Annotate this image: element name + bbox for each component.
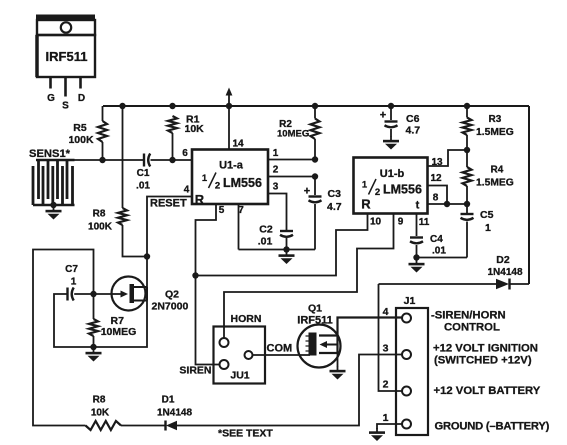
wire: Q1 drain to J1 pin 4 [338,318,403,336]
svg-text:S: S [62,101,69,112]
wire: J1 pin 1 to ground [377,424,402,429]
node: rail/R3 [464,103,470,109]
svg-text:Q2: Q2 [165,289,179,301]
node: gate/C7/R7 [90,291,96,297]
resistor R1 10K [168,113,204,159]
svg-text:100K: 100K [68,134,94,146]
node: rail/pin14 [226,103,232,109]
svg-text:10: 10 [370,217,382,228]
wire: Q2 source to ground rail [94,301,148,348]
package leg S [62,77,69,112]
svg-text:SIREN: SIREN [179,365,211,377]
svg-text:1.5MEG: 1.5MEG [476,178,514,189]
node: reset/R8/Q2 drain [144,253,150,259]
svg-text:4.7: 4.7 [327,201,342,213]
ground (C2/pin7 rail) [286,251,288,255]
node: C1/R1/pin6 [169,157,175,163]
svg-text:R3: R3 [489,114,502,125]
wire: ground rail under U1-a [239,249,316,251]
svg-text:+: + [304,186,310,198]
wire: R8 to D1 [121,425,166,427]
svg-text:RESET: RESET [150,197,187,209]
wire: C5 bottom to C4 node [417,257,468,259]
node: R7/ground [90,344,96,350]
svg-text:JU1: JU1 [230,370,249,382]
svg-text:10K: 10K [185,123,205,135]
svg-text:1: 1 [202,173,208,184]
node: pin2/C3 [312,173,318,179]
svg-text:.01: .01 [136,181,150,192]
wire: siren node to JU1 SIREN pin [196,276,220,365]
svg-text:1: 1 [383,412,389,424]
wire: pin 1 to R2/C3 net [268,159,315,161]
ground (SENS1) [53,207,55,211]
resistor R8 10K [86,395,122,431]
wire: rail right drop to D2 [528,106,530,284]
node: sensor to ground [50,202,56,208]
svg-text:.01: .01 [432,246,446,257]
wire: pin 10 to pin 5 net [196,214,368,276]
svg-text:1N4148: 1N4148 [157,407,192,418]
svg-text:LM556: LM556 [383,183,422,197]
svg-text:4.7: 4.7 [406,125,421,137]
label +12 VOLT IGNITION (SWITCHED +12V) [433,342,538,366]
node: pin8/pin12 [444,201,450,207]
svg-text:CONTROL: CONTROL [444,322,500,334]
svg-text:C3: C3 [328,188,342,200]
svg-text:R8: R8 [93,209,106,220]
wire: rail down to R8 [122,106,124,208]
svg-text:2: 2 [383,379,389,391]
svg-text:3: 3 [273,182,279,193]
svg-text:U1-b: U1-b [380,168,405,180]
svg-text:11: 11 [419,217,430,228]
svg-text:4: 4 [184,185,190,196]
svg-text:IRF511: IRF511 [46,49,88,64]
wire: Q2 gate line [94,293,112,295]
svg-text:14: 14 [232,139,244,150]
wire: JU1 COM to Q1 gate [253,354,311,356]
svg-text:+12 VOLT IGNITION: +12 VOLT IGNITION [433,342,538,354]
resistor R8 100K [88,208,127,233]
svg-text:1.5MEG: 1.5MEG [476,127,514,138]
wire: R8 bottom to reset node [123,225,148,257]
svg-text:*SEE TEXT: *SEE TEXT [218,428,273,440]
svg-text:D1: D1 [162,395,175,406]
svg-text:R7: R7 [111,315,125,327]
capacitor C4 .01 [410,234,446,258]
svg-text:C7: C7 [65,264,78,275]
capacitor C6 4.7 (electrolytic) [380,106,420,137]
wire: pin 8 to R4/C5 junction [428,203,468,205]
svg-text:100K: 100K [88,222,113,233]
svg-text:C2: C2 [259,224,273,236]
wire: reset node down to Q2 drain [146,257,148,288]
svg-text:2: 2 [375,187,380,198]
svg-text:1: 1 [71,277,77,288]
wire: pin 13 to R3/R4 junction [428,150,468,166]
capacitor C3 4.7 (electrolytic) [304,177,342,250]
resistor R3 1.5MEG [463,106,514,150]
wire: pin 3 to C2 [268,194,287,231]
svg-text:G: G [47,93,55,104]
resistor R2 10MEG [277,106,320,160]
svg-text:1: 1 [485,222,491,234]
svg-text:J1: J1 [404,295,416,307]
package leg D [78,77,85,104]
node: rail/C6 [388,103,394,109]
svg-text:HORN: HORN [231,313,262,325]
svg-text:.01: .01 [258,236,273,248]
svg-text:C4: C4 [430,234,443,245]
node: pin5/pin10/siren [192,272,198,278]
ground (J1 pin 1) [376,428,378,432]
svg-text:2N7000: 2N7000 [152,301,189,313]
svg-text:10MEG: 10MEG [277,129,309,140]
svg-text:R8: R8 [93,395,106,406]
svg-text:SENS1*: SENS1* [29,148,71,160]
transistor Q2 2N7000 [112,277,189,313]
svg-text:10K: 10K [91,408,110,419]
wire: pin 5 down-left to node [196,204,217,276]
capacitor C7 1 [65,264,93,301]
node: rail/R2 [312,103,318,109]
svg-text:(SWITCHED +12V): (SWITCHED +12V) [434,355,532,367]
svg-text:GROUND (–BATTERY): GROUND (–BATTERY) [435,420,550,432]
svg-text:+: + [380,110,386,122]
svg-text:LM556: LM556 [223,176,262,190]
svg-text:2: 2 [215,181,220,192]
diode D1 1N4148 [157,395,192,431]
capacitor C2 .01 [258,224,293,250]
resistor R5 100K [68,106,107,160]
svg-text:C6: C6 [406,113,420,125]
svg-text:12: 12 [430,173,442,184]
svg-text:U1-a: U1-a [219,160,244,172]
svg-text:2: 2 [273,165,279,176]
wire: bottom rail D1 to J1 pin 3 [177,355,402,426]
svg-text:D: D [78,93,85,104]
ground (C6) [390,137,392,141]
wire: C1 to pin 6 of U1-a [151,159,193,161]
svg-text:4: 4 [383,306,389,318]
wire: C7 left plate loop to ground [54,294,94,347]
svg-text:IRF511: IRF511 [297,315,332,327]
svg-text:+12 VOLT BATTERY: +12 VOLT BATTERY [434,385,541,397]
wire: pin 12 to pin 8 net [428,186,448,205]
op-amp/timer U1-a (1/2 LM556) [192,150,268,208]
capacitor C5 1 [461,204,494,258]
connector J1 [396,295,428,435]
wire: pin 2 to R2/C3 net [268,176,315,178]
transistor Q1 IRF511 [297,303,340,368]
transistor package drawing IRF511 (TO-220 outline) [36,15,95,78]
svg-text:R: R [195,192,205,207]
svg-text:1N4148: 1N4148 [487,267,522,278]
capacitor C1 .01 [136,154,150,192]
ground (Q1 source) [337,367,339,371]
svg-text:1: 1 [362,180,368,191]
diode D2 1N4148 [379,254,530,290]
node: C4/C5 ground link [413,254,419,260]
wire: D2 to J1 pin 2 (+12V battery) [379,284,403,391]
svg-text:6: 6 [182,148,188,159]
label SIREN/HORN CONTROL [431,310,506,334]
wire: sensor node to C1 [75,159,145,161]
node: C2 ground [283,246,289,252]
op-amp/timer U1-b (1/2 LM556) [354,158,428,214]
svg-text:R4: R4 [491,164,504,175]
svg-text:9: 9 [398,217,404,228]
resistor R7 10MEG [89,294,136,347]
package leg G [47,77,55,104]
ground (C4) [416,260,418,264]
wire: pin 4 reset to node [147,197,192,257]
node: pin1/R2 [312,156,318,162]
svg-text:D2: D2 [496,254,510,266]
svg-text:C5: C5 [480,209,494,221]
svg-text:1: 1 [273,148,279,159]
svg-text:R5: R5 [73,122,87,134]
svg-text:5: 5 [219,205,225,216]
node: R4/pin8/C5 [464,201,470,207]
ground (R7/Q2 source) [93,349,95,353]
wire: pin 7 to ground rail [238,204,240,250]
power symbol: +12V arrow above pin 14 [226,88,233,107]
svg-text:3: 3 [383,343,389,355]
svg-text:C1: C1 [137,168,150,179]
wire: pin 14 to rail [228,106,230,150]
resistor R4 1.5MEG [463,150,514,204]
svg-text:-SIREN/HORN: -SIREN/HORN [431,310,506,322]
svg-text:COM: COM [267,343,293,355]
svg-text:8: 8 [433,193,439,204]
node: rail/R1 [169,103,175,109]
node: SENS/R5 [99,157,105,163]
wire: Q1 source to ground [337,353,339,367]
svg-text:Q1: Q1 [308,303,322,315]
svg-text:t: t [416,200,420,212]
wire: pin 11 to C4 [416,214,418,237]
node: rail/R8 pullup [119,103,125,109]
wire: pin 9 to HORN jumper [224,214,394,339]
svg-text:10MEG: 10MEG [101,326,137,338]
jumper block JU1 [214,313,266,384]
wire: +12V power rail [103,105,529,107]
node: R3/R4/pin13 [464,147,470,153]
wire: gate node up-left-down to bottom rail [33,250,94,426]
svg-text:R: R [361,197,371,212]
sensor SENS1 interdigitated grid [33,160,75,205]
